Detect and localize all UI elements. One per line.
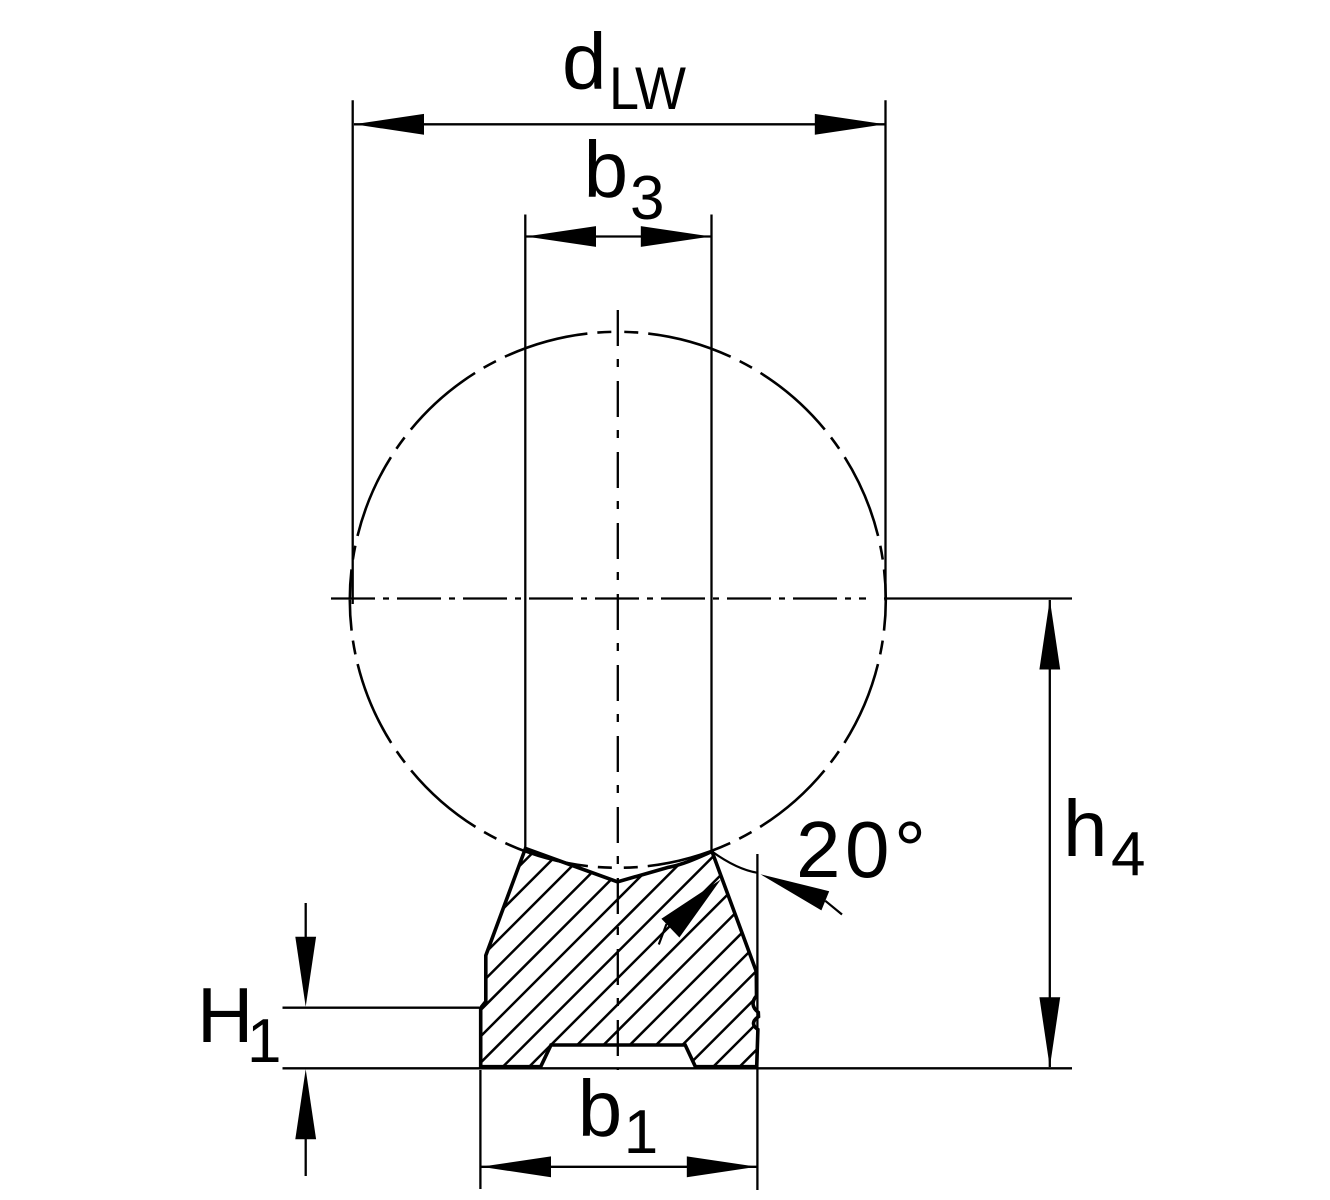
angle 20 deg: inner arrow tail	[659, 924, 667, 945]
dimension b3: extension line right	[710, 215, 712, 852]
dimension h4: bottom arrowhead	[1039, 997, 1060, 1067]
svg-text:LW: LW	[609, 55, 686, 122]
dimension b3: extension line left	[524, 215, 526, 849]
svg-text:b: b	[584, 125, 629, 214]
svg-text:d: d	[562, 17, 607, 106]
dimension dLW: dimension line	[354, 123, 885, 125]
svg-text:h: h	[1063, 784, 1108, 873]
angle 20 deg: inner arrowhead on flank face	[661, 880, 720, 938]
svg-text:4: 4	[1111, 820, 1145, 889]
dimension b3: right arrowhead	[641, 226, 711, 247]
hatching of cross-section	[316, 840, 967, 1070]
horizontal centerline	[331, 597, 866, 599]
dimension b1: right arrowhead	[687, 1156, 757, 1177]
dimension b1: dimension line	[480, 1166, 757, 1168]
dimension dLW: left arrowhead	[354, 114, 424, 135]
angle 20 deg: outer arrowhead	[761, 874, 830, 910]
dimension H1: upper arrowhead	[295, 937, 316, 1007]
dimension H1: upper reference line	[283, 1007, 480, 1009]
dimension H1: lower arrowhead	[295, 1069, 316, 1139]
dimension h4: top reference line	[884, 597, 1072, 599]
svg-text:1: 1	[247, 1007, 281, 1076]
dimension b3: left arrowhead	[526, 226, 596, 247]
ball/roller pitch circle: top-left quarter	[350, 332, 618, 600]
svg-text:b: b	[578, 1064, 623, 1153]
ground reference line (bottom, shared by H1 and h4)	[283, 1067, 1073, 1069]
dimension H1: lower shaft	[305, 1137, 307, 1176]
dimension dLW: right arrowhead	[815, 114, 885, 135]
ball/roller pitch circle: bottom-right quarter	[618, 600, 886, 868]
dimension h4: dimension line	[1049, 600, 1051, 1067]
dimension b1: extension line left	[479, 1070, 481, 1189]
dimension b1: left arrowhead	[481, 1156, 551, 1177]
angle 20 deg: outer arrow tail	[825, 901, 842, 915]
angle 20 deg: leader arc from corner	[712, 852, 758, 873]
dimension dLW: extension line left	[352, 100, 354, 604]
dimension b3: dimension line	[525, 235, 711, 237]
dimension dLW: extension line right	[884, 100, 886, 601]
dimension h4: top arrowhead	[1039, 600, 1060, 670]
ball/roller pitch circle: top-right quarter	[618, 332, 886, 600]
svg-text:1: 1	[624, 1098, 658, 1167]
vertical centerline	[617, 310, 619, 1070]
ball/roller pitch circle: bottom-left quarter (phantom line)	[350, 600, 618, 868]
svg-text:20°: 20°	[796, 805, 930, 894]
dimension b1 / angle 20 deg: right extension + vertical reference line	[756, 854, 758, 1190]
dimension H1: upper shaft	[305, 903, 307, 938]
svg-text:H: H	[197, 971, 253, 1059]
cross-section outline	[481, 849, 759, 1067]
svg-text:3: 3	[630, 164, 664, 233]
